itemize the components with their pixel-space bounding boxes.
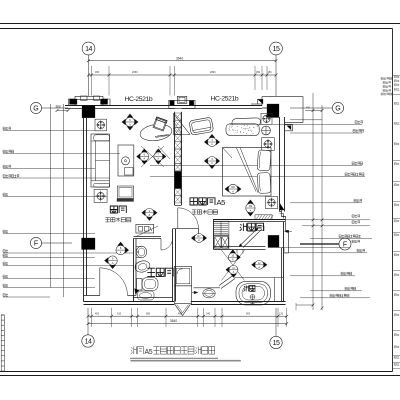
- bathroom left wall: [133, 239, 135, 302]
- top-right wall inner lines: [262, 107, 267, 109]
- suite bottom inner wall: [84, 295, 100, 297]
- left label 4W2: [3, 275, 8, 278]
- svg-text:15: 15: [273, 340, 280, 347]
- left label wallpaper: [3, 193, 8, 196]
- svg-text:120: 120: [279, 312, 284, 315]
- bathroom inner bottom wall: [134, 297, 173, 299]
- svg-text:450: 450: [306, 107, 311, 110]
- bathroom/corridor shared wall: [172, 229, 174, 302]
- right wall step mid: [280, 210, 289, 253]
- bathtub inner: [239, 284, 268, 303]
- top-right column black wedge: [258, 99, 264, 104]
- bathtub drain oval: [250, 295, 255, 300]
- elevation marker shower pair B: [226, 265, 238, 277]
- axis F right thick leader: [300, 243, 339, 245]
- left label wood veneer: [3, 150, 14, 153]
- page inner right border line: [392, 29, 394, 372]
- svg-text:A5: A5: [145, 349, 153, 356]
- wall arrow right of shower: [285, 230, 289, 233]
- closet lower box: [174, 286, 191, 304]
- page inner bottom border line: [0, 371, 393, 373]
- elevation marker corridor: [191, 234, 207, 243]
- room label: king room A5: [190, 198, 197, 205]
- axis F left leader: [42, 242, 72, 244]
- right wood panel label: [150, 176, 365, 178]
- svg-text:450: 450: [256, 71, 261, 74]
- svg-text:G: G: [335, 106, 340, 113]
- shower door track stubs: [236, 250, 238, 254]
- top-right column step outline: [262, 97, 303, 123]
- bottom detail dimension line: [88, 315, 287, 317]
- shower shelf hatched: [213, 221, 229, 235]
- chaise pillow outline: [232, 118, 260, 125]
- bed pillow upper: [257, 150, 271, 171]
- window bay 2 outline: [169, 100, 195, 108]
- right skirting label: [310, 238, 372, 240]
- washbasin sink on wall: [136, 247, 141, 258]
- right wall step notch top: [285, 125, 293, 131]
- bathtub innermost: [242, 286, 265, 300]
- left wall small dimension: [57, 110, 68, 112]
- bedroom door leaf: [177, 208, 179, 229]
- svg-text:HC-2521b: HC-2521b: [211, 96, 239, 103]
- shower room bottom wall: [214, 246, 266, 248]
- left finish-label leader vertical line B: [63, 104, 65, 297]
- sofa against left wall: [91, 134, 110, 187]
- right wall bedroom double: [279, 117, 281, 212]
- elevation marker shower pair A: [228, 249, 240, 261]
- bed outline: [223, 148, 272, 197]
- svg-text:900: 900: [246, 312, 251, 315]
- plus-square bedroom right A: [261, 113, 272, 124]
- right stone line label: [290, 132, 362, 134]
- suite icon leader diagonal: [136, 226, 158, 237]
- right wall leader: [282, 247, 350, 249]
- svg-text:15: 15: [273, 46, 280, 53]
- corner cabinet triangle: [174, 114, 191, 135]
- suite icon box: [136, 224, 154, 233]
- counter basin oval: [203, 289, 215, 298]
- closet upper box: [174, 267, 191, 286]
- suite floor label: [105, 218, 109, 222]
- svg-text:A5: A5: [217, 198, 226, 207]
- king room floor label: [192, 210, 196, 214]
- shower room left edge: [213, 220, 215, 250]
- axis G left leader: [42, 107, 68, 109]
- svg-text:3640: 3640: [176, 56, 183, 60]
- elevation marker below bed: [246, 200, 255, 217]
- plus-square bedroom right C: [265, 196, 277, 208]
- entry door V swing: [175, 305, 190, 316]
- laptop on desk: [153, 117, 167, 131]
- svg-text:HC-2521b: HC-2521b: [125, 96, 153, 103]
- plus-square symbol above sofa: [95, 119, 107, 131]
- svg-text:450: 450: [95, 71, 100, 74]
- right stone label small: [352, 240, 360, 243]
- top overall dimension line 3640: [89, 60, 277, 62]
- right C084 label: [290, 275, 355, 277]
- column top-left (filled): [82, 106, 95, 118]
- svg-text:F: F: [34, 241, 38, 248]
- partition black blob column: [175, 171, 181, 188]
- bottom right dim stub: [296, 304, 313, 306]
- left label YL6: [3, 230, 8, 233]
- left label 196: [3, 254, 8, 257]
- svg-text:900: 900: [146, 312, 151, 315]
- window bay 2 center bump: [177, 96, 187, 103]
- window bay 2 black end right: [189, 101, 194, 106]
- right AC label: [290, 202, 362, 204]
- bathroom door leaf: [160, 239, 162, 251]
- svg-text:2050: 2050: [132, 71, 138, 74]
- top dimension extension lines: [91, 66, 93, 96]
- svg-text:D8: D8: [231, 185, 235, 189]
- grid axis circle 15 bottom: [270, 336, 282, 348]
- right margin revision table: [393, 75, 400, 77]
- column top-right (filled): [267, 104, 279, 118]
- window bay 2 black end left: [170, 101, 175, 106]
- grid axis circle F left: [30, 237, 41, 248]
- elevation marker right of pair: [251, 260, 267, 269]
- page outer top border line: [0, 23, 400, 25]
- grid axis circle F right: [339, 238, 351, 250]
- left label stone counter: [3, 127, 11, 130]
- suite entry door swing arc: [100, 268, 128, 296]
- svg-text:450: 450: [95, 312, 100, 315]
- grid axis extension line 14 top: [88, 55, 90, 96]
- svg-text:150: 150: [268, 71, 273, 74]
- desk oval table: [139, 122, 173, 142]
- window bay 1 mullion square B: [94, 96, 100, 100]
- bathroom door swing arc: [161, 239, 173, 251]
- bed blanket diagonals: [237, 148, 257, 192]
- bed pillow lower: [257, 172, 271, 193]
- grid axis extension line 15 top: [275, 55, 277, 96]
- toilet bowl: [142, 278, 158, 291]
- grid axis extension line 14 bottom: [87, 308, 89, 335]
- right decor painting label: [150, 165, 362, 167]
- bathtub outer: [236, 281, 271, 305]
- bottom overall dimension line 3640: [88, 323, 287, 325]
- pen object on desk: [155, 135, 170, 138]
- axis G right leader: [290, 107, 332, 109]
- page outer bottom border line: [0, 375, 400, 377]
- top detail dimension line: [89, 74, 277, 76]
- X leader through shower markers: [222, 250, 245, 281]
- bathtub platform right edge: [273, 278, 275, 302]
- right small dimension ticks mid 450: [285, 219, 370, 221]
- svg-text:2860: 2860: [210, 71, 216, 74]
- grid axis circle 15 top: [270, 42, 283, 55]
- shower door diagonals: [239, 228, 258, 247]
- shower drain X-box: [213, 236, 229, 250]
- chaise bench stippled: [226, 124, 259, 136]
- corridor top wall: [173, 228, 199, 230]
- grid axis circle 14 bottom: [82, 335, 94, 347]
- toilet tank: [137, 279, 143, 291]
- svg-text:240: 240: [206, 312, 211, 315]
- column shower right (filled): [268, 235, 279, 247]
- title underline thin: [130, 357, 218, 359]
- partition bottom cap: [175, 205, 182, 207]
- entry counter front edge: [194, 287, 220, 289]
- grid axis circle G right: [332, 102, 343, 113]
- top wall double line: [65, 105, 262, 107]
- left label 604: [3, 250, 8, 253]
- hamper fixture: [138, 291, 155, 300]
- svg-text:610: 610: [117, 312, 122, 315]
- elevation marker living top: [122, 114, 139, 131]
- elevation marker bed corner: [225, 184, 242, 193]
- partition X-hatch boxes: [174, 113, 181, 203]
- svg-text:G: G: [33, 106, 38, 113]
- left label stone top: [3, 165, 11, 168]
- round basin fixture: [134, 259, 151, 274]
- left label D30: [3, 284, 8, 287]
- left finish-label leader vertical line A: [50, 104, 52, 288]
- room label: bathroom (wei sheng jian): [147, 268, 155, 276]
- right wall lower double: [281, 248, 283, 302]
- room label: suite (tao fang): [110, 206, 117, 213]
- left label F22: [3, 262, 8, 265]
- right vertical extension line B: [321, 105, 323, 310]
- plus-square symbol below sofa: [94, 190, 107, 203]
- grid axis circle 14 top: [82, 42, 95, 55]
- shower door jamb mark: [258, 226, 265, 231]
- X leader through living markers: [141, 146, 164, 167]
- counter arrow: [194, 291, 198, 294]
- window bay 1 mullion square A: [81, 96, 88, 100]
- elevation marker pair living right: [154, 149, 166, 165]
- window bay 1 black end right: [101, 99, 108, 104]
- elevation marker bath pair B (left): [104, 256, 117, 269]
- bathroom top wall: [134, 236, 162, 238]
- right stone label: [230, 123, 362, 125]
- right 4-072 label: [310, 290, 362, 292]
- column left-mid F axis (filled): [82, 238, 96, 250]
- svg-text:14: 14: [85, 339, 92, 346]
- plus-circle nightstand top: [262, 126, 271, 135]
- floor drain black wedge: [135, 289, 140, 295]
- partition wall living/bedroom: [174, 112, 176, 205]
- grid axis circle G left: [30, 102, 41, 113]
- bottom dimension extension lines: [91, 308, 93, 327]
- suite entry door leaf: [99, 268, 101, 296]
- bedroom bottom / shower top wall: [213, 219, 285, 221]
- bedroom door swing arc: [178, 208, 199, 229]
- TV console: [118, 145, 134, 176]
- unit bottom wall double line: [84, 301, 175, 303]
- shower glass hatch strip: [255, 215, 272, 220]
- plus-square bedroom right B: [262, 138, 275, 151]
- armchair top middle: [189, 117, 214, 135]
- elevation marker pair living left: [136, 149, 148, 165]
- bathtub small cross below: [251, 302, 255, 305]
- grid axis extension line 15 bottom: [275, 308, 277, 336]
- right 2-layer label: [285, 252, 367, 254]
- right vertical extension line A: [312, 93, 314, 310]
- drawing title text: [131, 347, 137, 355]
- room label: shower room (lin yu fang): [240, 223, 247, 231]
- right small dimension 450 top: [305, 110, 322, 112]
- elevation marker bedroom left A: [204, 134, 220, 146]
- svg-text:D9: D9: [249, 204, 253, 208]
- elevation marker suite label: [141, 208, 157, 220]
- dark stool below table: [117, 199, 134, 202]
- top-right mini note block: [381, 78, 392, 80]
- left wall double line: [83, 118, 85, 302]
- right wall black wedge mid: [280, 204, 284, 211]
- title underline thick gray: [131, 360, 241, 362]
- elevation marker bath pair A (left): [116, 242, 129, 255]
- right wall lower steps near column: [279, 248, 289, 254]
- page inner top border line: [0, 28, 393, 30]
- left label glass partition: [3, 175, 19, 178]
- left label 13F: [3, 294, 8, 297]
- bathtub label (yu gang): [243, 285, 248, 291]
- window bay 1 black end left: [70, 99, 78, 104]
- elevation marker bedroom left B: [204, 157, 220, 169]
- small table below TV console: [118, 186, 134, 199]
- window bay 1 outline: [69, 99, 111, 105]
- tub platform diagonal corner: [219, 276, 233, 286]
- scale bar ladder left margin: [1, 315, 4, 371]
- right skirting-072 label: [300, 297, 370, 299]
- svg-text:14: 14: [85, 46, 92, 53]
- svg-text:3640: 3640: [170, 319, 177, 323]
- tub platform top edge: [234, 277, 283, 279]
